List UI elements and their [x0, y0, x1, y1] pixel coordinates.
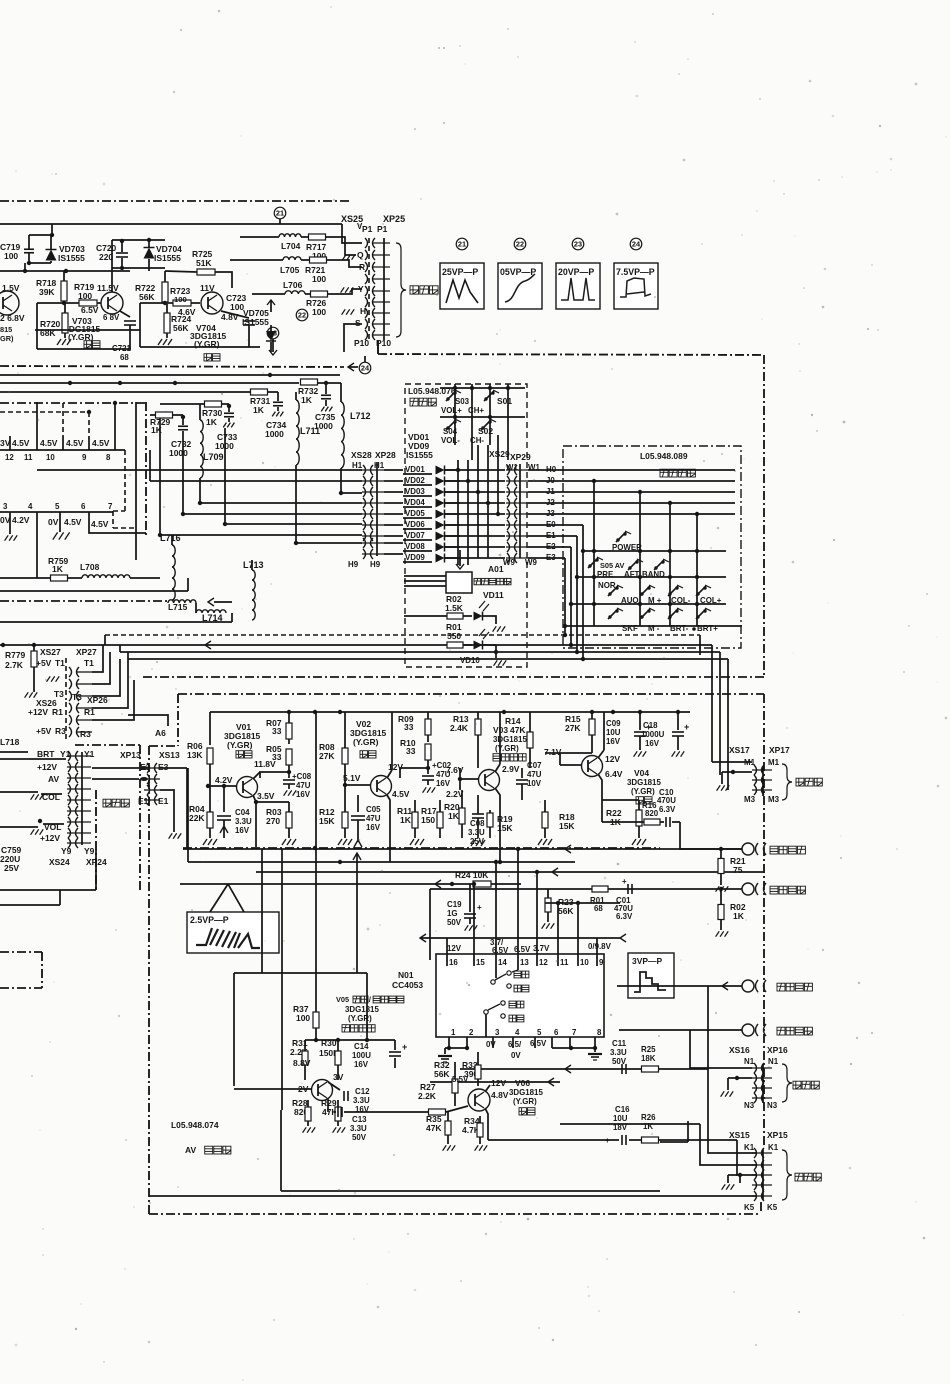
- capacitor C719: [24, 248, 34, 250]
- svg-text:S03: S03: [455, 397, 470, 406]
- brace XP17: [782, 764, 792, 800]
- svg-text:10V: 10V: [527, 779, 542, 788]
- svg-text:L705: L705: [280, 265, 300, 275]
- svg-text:3DG1815: 3DG1815: [627, 778, 661, 787]
- svg-text:7: 7: [108, 502, 113, 511]
- svg-text:50V: 50V: [352, 1133, 367, 1142]
- svg-text:11V: 11V: [200, 283, 215, 293]
- wire y1153 K1: [708, 1069, 757, 1153]
- svg-text:8: 8: [597, 1028, 602, 1037]
- resistor R729: [156, 412, 173, 418]
- wire V01 emitter: [253, 795, 256, 847]
- transistor V05: [312, 1080, 333, 1101]
- svg-text:27K: 27K: [565, 723, 581, 733]
- capacitor C723: [221, 311, 249, 318]
- IC pin 9: [596, 954, 598, 966]
- wire V04 base: [560, 764, 582, 766]
- svg-text:XP13: XP13: [120, 750, 141, 760]
- svg-text:COL-: COL-: [671, 596, 691, 605]
- control board dashed box: [405, 384, 527, 667]
- svg-text:10: 10: [46, 453, 55, 462]
- svg-text:16: 16: [449, 958, 458, 967]
- capacitor C734: [273, 401, 283, 403]
- ground R11 R17: [410, 839, 414, 845]
- svg-text:XS15: XS15: [729, 1130, 750, 1140]
- wire V02 collector: [387, 770, 392, 778]
- svg-text:R26: R26: [641, 1113, 656, 1122]
- svg-text:11.8V: 11.8V: [254, 759, 276, 769]
- svg-text:100U: 100U: [352, 1051, 371, 1060]
- svg-text:3: 3: [3, 502, 8, 511]
- inductor L712: [340, 383, 342, 402]
- resistor R731: [251, 389, 268, 395]
- switch grid wires: [440, 387, 525, 389]
- svg-text:15K: 15K: [559, 821, 575, 831]
- wire y1191: [281, 1190, 660, 1192]
- ground R22: [632, 839, 636, 845]
- wires A01 left: [404, 575, 446, 577]
- svg-text:C07: C07: [527, 761, 542, 770]
- svg-text:CC4053: CC4053: [392, 980, 423, 990]
- svg-text:XS27: XS27: [40, 647, 61, 657]
- svg-text:VD07: VD07: [405, 531, 425, 540]
- svg-text:M -: M -: [648, 624, 660, 633]
- svg-text:L712: L712: [350, 411, 371, 421]
- svg-text:SKF: SKF: [622, 624, 638, 633]
- transistor V01: [237, 777, 258, 798]
- svg-text:S01: S01: [497, 396, 512, 406]
- svg-text:AV: AV: [48, 774, 59, 784]
- switch S02: [481, 426, 484, 429]
- svg-text:4.5V: 4.5V: [40, 438, 58, 448]
- svg-text:P1: P1: [362, 224, 373, 234]
- svg-text:4.5V: 4.5V: [91, 519, 109, 529]
- svg-text:COL+: COL+: [700, 596, 722, 605]
- long vertical x136: [135, 402, 137, 560]
- connector XS24 XP24: [81, 752, 83, 845]
- svg-text:XP26: XP26: [87, 695, 108, 705]
- svg-text:1000: 1000: [169, 448, 188, 458]
- svg-text:1K: 1K: [733, 911, 745, 921]
- svg-text:12: 12: [539, 958, 548, 967]
- svg-text:18K: 18K: [641, 1054, 656, 1063]
- wire y622: [0, 621, 232, 623]
- ground R04: [203, 839, 207, 845]
- ground slash Q: [343, 254, 347, 259]
- ground V03 bottom: [471, 840, 475, 846]
- svg-text:6: 6: [81, 502, 86, 511]
- wire inner rail: [29, 234, 52, 236]
- AV board dash-dot frame: [178, 693, 764, 695]
- svg-text:3.3U: 3.3U: [353, 1096, 370, 1105]
- svg-text:IS1555: IS1555: [406, 450, 433, 460]
- svg-text:C12: C12: [355, 1087, 370, 1096]
- inductor L705: [283, 257, 301, 260]
- svg-text:3DG1815: 3DG1815: [509, 1088, 543, 1097]
- svg-text:+5V: +5V: [36, 726, 52, 736]
- svg-text:5.1V: 5.1V: [343, 773, 361, 783]
- svg-text:11: 11: [24, 453, 33, 462]
- bus wire D: [128, 658, 728, 660]
- svg-text:100: 100: [78, 291, 92, 301]
- inductor L711: [296, 400, 299, 465]
- ground R12: [338, 839, 342, 845]
- svg-text:W9: W9: [525, 558, 537, 567]
- svg-text:+12V: +12V: [28, 707, 48, 717]
- resistor R732: [301, 379, 318, 385]
- svg-text:10U: 10U: [606, 728, 621, 737]
- test point 21 waveform box: [456, 238, 468, 250]
- svg-text:0V: 0V: [0, 515, 11, 525]
- svg-text:550: 550: [447, 631, 461, 641]
- svg-text:12V: 12V: [491, 1078, 506, 1088]
- svg-text:R779: R779: [5, 650, 26, 660]
- svg-text:2: 2: [469, 1028, 474, 1037]
- svg-text:+: +: [622, 877, 627, 886]
- wire mid rail: [0, 270, 130, 272]
- bus wire C: [120, 651, 720, 653]
- wire V704 base: [140, 302, 200, 304]
- IR receiver A01 box: [446, 572, 472, 593]
- svg-text:VD04: VD04: [405, 498, 425, 507]
- svg-text:3DG1815: 3DG1815: [493, 735, 527, 744]
- svg-text:3V: 3V: [0, 438, 11, 448]
- svg-text:25VP—P: 25VP—P: [442, 267, 478, 277]
- svg-text:50V: 50V: [612, 1057, 627, 1066]
- video in jack: [742, 843, 754, 855]
- svg-text:23: 23: [574, 239, 582, 248]
- IC switch 1: [495, 966, 497, 978]
- svg-text:VD02: VD02: [405, 476, 425, 485]
- svg-text:100: 100: [312, 274, 326, 284]
- wire V02 base: [345, 784, 371, 786]
- IC pin 13: [517, 954, 519, 966]
- wire V03 base: [460, 778, 479, 780]
- svg-text:2.2V: 2.2V: [446, 789, 464, 799]
- svg-text:2 6.8V: 2 6.8V: [0, 313, 25, 323]
- svg-text:+5V: +5V: [36, 658, 52, 668]
- svg-text:22: 22: [298, 310, 306, 319]
- svg-text:68: 68: [594, 904, 603, 913]
- wire top rail: [0, 223, 342, 225]
- wire row2 to L705: [230, 259, 283, 261]
- svg-text:27K: 27K: [319, 751, 335, 761]
- switch COL+: [696, 592, 699, 595]
- svg-text:7.1V: 7.1V: [544, 747, 562, 757]
- wire V03 collector emitter: [495, 764, 500, 772]
- resistor R725 wire: [165, 271, 197, 272]
- svg-text:L05.948.074: L05.948.074: [171, 1120, 219, 1130]
- svg-text:56K: 56K: [139, 292, 155, 302]
- svg-text:(Y.GR): (Y.GR): [631, 787, 655, 796]
- svg-text:+C08: +C08: [292, 772, 312, 781]
- svg-text:H9: H9: [370, 560, 381, 569]
- svg-text:12: 12: [5, 453, 14, 462]
- dash-dot vertical x96: [95, 790, 97, 890]
- wire E3 to AV board: [160, 767, 187, 769]
- wire R31 R30 top: [305, 1039, 395, 1041]
- svg-text:1.5V: 1.5V: [2, 283, 20, 293]
- svg-text:0/9.8V: 0/9.8V: [588, 942, 612, 951]
- wires to XS16: [690, 1030, 752, 1068]
- ground VOL: [31, 829, 35, 834]
- 3VP-P waveform box: [628, 953, 674, 998]
- wire y903: [545, 902, 620, 904]
- svg-text:XP17: XP17: [769, 745, 790, 755]
- switch POWER: [616, 538, 619, 541]
- capacitor C08a: [288, 772, 290, 778]
- svg-text:270: 270: [266, 816, 280, 826]
- svg-text:100: 100: [4, 251, 18, 261]
- switch BAND: [654, 566, 657, 569]
- capacitor C08b: [472, 813, 484, 815]
- node junction: [50, 233, 54, 237]
- inductor L706: [285, 291, 305, 294]
- test point 24: [359, 362, 371, 374]
- svg-text:IS1555: IS1555: [154, 253, 181, 263]
- wire H6: [160, 534, 362, 536]
- svg-text:BRT+: BRT+: [697, 624, 718, 633]
- svg-text:13K: 13K: [187, 750, 203, 760]
- svg-text:7.6V: 7.6V: [446, 765, 464, 775]
- switch S01: [484, 397, 487, 400]
- svg-text:0V: 0V: [486, 1040, 496, 1049]
- IC pin 12: [536, 954, 538, 966]
- svg-text:C08: C08: [470, 819, 485, 828]
- svg-text:A6: A6: [155, 728, 166, 738]
- wire VD704 top: [112, 239, 165, 241]
- wire V01 base: [208, 785, 237, 787]
- transistor V02: [371, 776, 392, 797]
- svg-text:XS16: XS16: [729, 1045, 750, 1055]
- wire C08 to collector: [260, 772, 289, 778]
- svg-text:6.5V: 6.5V: [492, 946, 509, 955]
- wire y849 video: [183, 848, 742, 850]
- audio out jack: [742, 1024, 754, 1036]
- svg-text:3.3U: 3.3U: [350, 1124, 367, 1133]
- svg-text:3.3U: 3.3U: [235, 817, 252, 826]
- matrix drops to bus: [582, 551, 584, 659]
- wire y884 with R24: [180, 883, 521, 885]
- dash-dot stub left: [0, 402, 148, 404]
- ground IC pins 1 2: [445, 1047, 467, 1049]
- svg-text:100: 100: [174, 295, 187, 304]
- capacitor C733: [224, 412, 234, 414]
- svg-text:VD08: VD08: [405, 542, 425, 551]
- resistor R721: [310, 257, 327, 263]
- wire pin6 corner: [89, 524, 146, 533]
- svg-text:M1: M1: [768, 758, 780, 767]
- ground R35: [443, 1145, 447, 1150]
- bus wire B: [0, 644, 712, 646]
- svg-text:4.2V: 4.2V: [12, 515, 30, 525]
- svg-text:H1: H1: [374, 461, 385, 470]
- wire audio in: [617, 985, 742, 987]
- svg-text:12V: 12V: [605, 754, 620, 764]
- vertical feed x262: [261, 849, 263, 973]
- svg-text:V05: V05: [336, 995, 349, 1004]
- ground R18: [538, 839, 542, 845]
- svg-text:L708: L708: [80, 562, 100, 572]
- switch S04: [446, 426, 449, 429]
- svg-text:5: 5: [537, 1028, 542, 1037]
- svg-text:E1: E1: [158, 796, 169, 806]
- ground slash Y: [341, 287, 345, 292]
- wire y1069 audio: [460, 1068, 708, 1070]
- svg-text:VD03: VD03: [405, 487, 425, 496]
- svg-text:15K: 15K: [319, 816, 335, 826]
- bus wire A: [105, 634, 700, 636]
- capacitor C720: [116, 252, 128, 254]
- svg-text:L715: L715: [168, 602, 188, 612]
- svg-text:33: 33: [272, 726, 282, 736]
- svg-text:K1: K1: [768, 1143, 779, 1152]
- wire V06 collector: [485, 1085, 490, 1092]
- wires XS24 to XP13: [92, 767, 139, 769]
- svg-text:23: 23: [269, 328, 277, 337]
- test point 22 waveform box: [514, 238, 526, 250]
- svg-text:22: 22: [516, 239, 524, 248]
- svg-text:VD10: VD10: [460, 656, 480, 665]
- connector XS26 XP26: [65, 702, 67, 740]
- svg-text:25V: 25V: [4, 863, 19, 873]
- svg-text:C09: C09: [606, 719, 621, 728]
- svg-text:C04: C04: [235, 808, 250, 817]
- wire y889 video out: [430, 888, 742, 890]
- wire row3 to L706: [252, 293, 285, 295]
- svg-text:9: 9: [82, 453, 87, 462]
- wire verticals above IC: [36, 402, 38, 436]
- wire y1196 K4: [149, 1195, 757, 1197]
- svg-text:1K: 1K: [643, 1122, 653, 1131]
- svg-text:7.5VP—P: 7.5VP—P: [616, 267, 655, 277]
- svg-text:C19: C19: [447, 900, 462, 909]
- wire H3: [341, 492, 362, 494]
- diode VD705: [266, 331, 276, 341]
- inductor L715: [0, 600, 168, 602]
- test point 22: [296, 309, 308, 321]
- arrow down from 23: [272, 339, 274, 352]
- svg-text:BRT-: BRT-: [670, 624, 689, 633]
- svg-text:815: 815: [0, 325, 12, 334]
- switch SKF: [608, 615, 611, 618]
- key row lines: [583, 550, 726, 552]
- svg-text:47U: 47U: [366, 814, 381, 823]
- svg-text:13: 13: [520, 958, 529, 967]
- transistor V03: [479, 770, 500, 791]
- svg-text:S02: S02: [478, 426, 493, 436]
- left board bottom corner: [0, 889, 96, 891]
- svg-text:S05 AV: S05 AV: [600, 561, 625, 570]
- svg-text:/: /: [369, 995, 371, 1004]
- wire y1124: [560, 1123, 700, 1125]
- wire P10 drop: [377, 340, 379, 354]
- svg-text:4.5V: 4.5V: [66, 438, 84, 448]
- svg-text:L713: L713: [243, 560, 264, 570]
- capacitor C721: [120, 311, 130, 317]
- svg-text:C16: C16: [615, 1105, 630, 1114]
- wires XS27 to bus: [92, 645, 103, 672]
- svg-text:XP15: XP15: [767, 1130, 788, 1140]
- svg-text:POWER: POWER: [612, 543, 642, 552]
- audio in jack: [742, 980, 754, 992]
- svg-text:2.7K: 2.7K: [5, 660, 24, 670]
- svg-text:10: 10: [580, 958, 589, 967]
- wire pin4 down: [36, 524, 38, 578]
- board boundary dash-dot top edge: [0, 200, 352, 202]
- svg-text:3.5V: 3.5V: [257, 791, 275, 801]
- svg-text:(Y.GR): (Y.GR): [495, 744, 519, 753]
- diode row wires to XP29: [445, 469, 505, 471]
- LED VD11: [474, 612, 483, 621]
- svg-text:XP28: XP28: [375, 450, 396, 460]
- svg-text:P1: P1: [377, 224, 388, 234]
- svg-text:+12V: +12V: [37, 762, 57, 772]
- wire bottom rail: [344, 324, 362, 352]
- svg-text:C721: C721: [112, 344, 132, 353]
- svg-text:47U: 47U: [527, 770, 542, 779]
- wire V704 bottom rail: [140, 346, 260, 348]
- svg-text:4: 4: [515, 1028, 520, 1037]
- svg-text:L05.948.089: L05.948.089: [640, 451, 688, 461]
- wire A6 corner: [128, 715, 168, 726]
- connector XS25 body: [368, 238, 370, 340]
- svg-text:VOL+: VOL+: [441, 406, 462, 415]
- capacitor C12: [343, 1091, 345, 1101]
- transistor V704: [201, 292, 223, 314]
- wires to XS15 upper: [687, 1121, 689, 1142]
- 2.5VP-P waveform box: [187, 912, 279, 953]
- wire rail y375: [0, 374, 340, 376]
- svg-text:N01: N01: [398, 970, 414, 980]
- connector XS29 XP29: [519, 464, 521, 558]
- svg-text:4.5V: 4.5V: [64, 517, 82, 527]
- svg-text:R14: R14: [505, 716, 521, 726]
- svg-text:6.5/: 6.5/: [508, 1040, 522, 1049]
- svg-text:16V: 16V: [436, 779, 451, 788]
- svg-text:4: 4: [28, 502, 33, 511]
- svg-text:16V: 16V: [645, 739, 660, 748]
- wire rail y383: [0, 382, 299, 384]
- svg-text:6.5V: 6.5V: [81, 305, 99, 315]
- svg-text:22K: 22K: [189, 813, 205, 823]
- svg-text:21: 21: [458, 239, 466, 248]
- svg-text:1G: 1G: [447, 909, 458, 918]
- svg-text:V: V: [357, 222, 363, 231]
- svg-text:PRE: PRE: [597, 570, 613, 579]
- svg-text:100: 100: [296, 1013, 310, 1023]
- svg-text:1K: 1K: [301, 395, 313, 405]
- svg-text:3V: 3V: [333, 1072, 344, 1082]
- IC dashed corner right: [124, 450, 126, 511]
- ground R34: [475, 1145, 479, 1150]
- wire y1140: [488, 1139, 619, 1141]
- svg-text:M3: M3: [768, 795, 780, 804]
- svg-text:Y1: Y1: [84, 749, 95, 759]
- ground IC pins 6 7 8: [552, 1047, 595, 1049]
- control area outer box: [378, 354, 764, 355]
- svg-text:K5: K5: [767, 1203, 778, 1212]
- capacitor C07: [516, 779, 528, 781]
- ground XS26: [25, 692, 29, 697]
- diode VD704: [144, 248, 155, 259]
- resistor R720: [62, 313, 68, 333]
- svg-text:Y1: Y1: [60, 749, 71, 759]
- wire E1 to ground: [160, 790, 174, 832]
- wire H7: [296, 542, 362, 544]
- svg-text:15K: 15K: [497, 823, 513, 833]
- switch M-: [640, 615, 643, 618]
